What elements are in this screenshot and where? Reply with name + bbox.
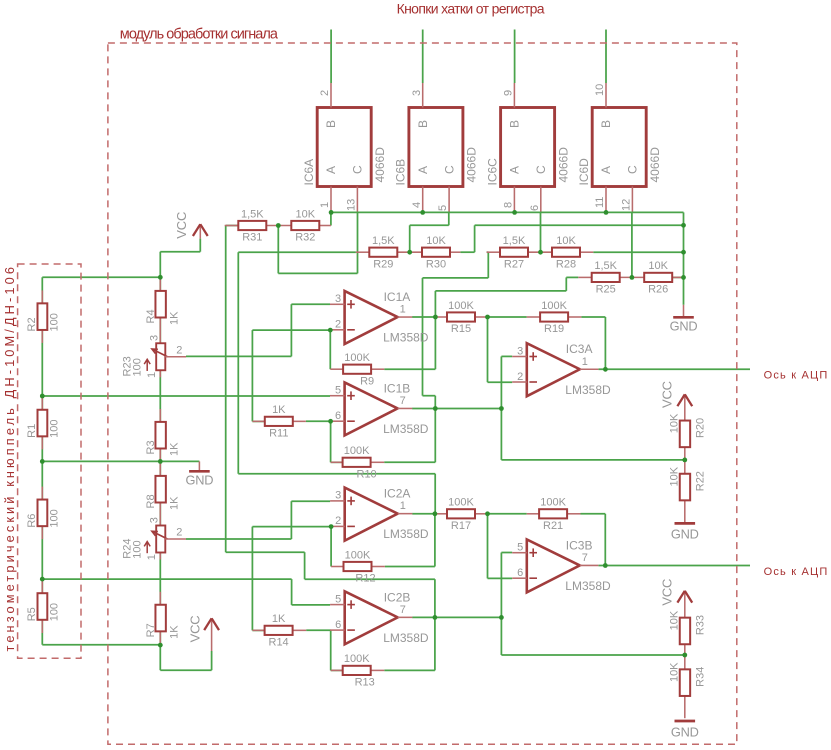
svg-text:R21: R21 — [543, 520, 563, 532]
svg-text:модуль обработки сигнала: модуль обработки сигнала — [120, 27, 279, 43]
svg-text:LM358D: LM358D — [383, 631, 429, 645]
svg-text:R33: R33 — [694, 615, 706, 635]
svg-text:100K: 100K — [448, 300, 474, 312]
svg-text:1,5K: 1,5K — [594, 260, 617, 272]
svg-text:GND: GND — [185, 473, 213, 488]
svg-text:1K: 1K — [168, 625, 180, 639]
svg-text:100K: 100K — [448, 497, 474, 509]
svg-text:GND: GND — [670, 319, 698, 334]
svg-text:6: 6 — [529, 205, 541, 211]
svg-text:7: 7 — [400, 395, 406, 407]
svg-text:VCC: VCC — [660, 579, 675, 606]
svg-text:10K: 10K — [669, 413, 681, 433]
svg-text:IC3B: IC3B — [566, 538, 593, 552]
svg-text:2: 2 — [319, 90, 331, 96]
svg-text:7: 7 — [400, 604, 406, 616]
svg-text:2: 2 — [176, 527, 182, 539]
svg-text:Ось к АЦП: Ось к АЦП — [764, 369, 829, 381]
svg-text:B: B — [416, 120, 430, 128]
svg-text:1K: 1K — [272, 404, 286, 416]
svg-text:R25: R25 — [596, 284, 616, 296]
svg-text:R15: R15 — [451, 323, 471, 335]
svg-text:A: A — [324, 166, 338, 174]
svg-text:IC3A: IC3A — [566, 342, 593, 356]
svg-text:A: A — [508, 166, 522, 174]
svg-text:1: 1 — [319, 202, 331, 208]
svg-text:IC6D: IC6D — [577, 158, 591, 186]
svg-text:Ось к АЦП: Ось к АЦП — [764, 566, 829, 578]
svg-text:1: 1 — [146, 372, 158, 378]
svg-text:5: 5 — [335, 593, 341, 605]
svg-text:R8: R8 — [145, 494, 157, 508]
svg-text:R30: R30 — [426, 258, 446, 270]
svg-text:6: 6 — [517, 567, 523, 579]
svg-text:4066D: 4066D — [373, 147, 387, 183]
svg-text:R28: R28 — [556, 258, 576, 270]
svg-text:7: 7 — [582, 552, 588, 564]
svg-text:IC6A: IC6A — [302, 159, 316, 186]
svg-text:IC1A: IC1A — [384, 290, 411, 304]
svg-text:R3: R3 — [145, 440, 157, 454]
svg-text:10K: 10K — [296, 208, 316, 220]
svg-text:1,5K: 1,5K — [503, 235, 526, 247]
svg-text:LM358D: LM358D — [565, 579, 611, 593]
svg-text:R1: R1 — [26, 424, 38, 438]
svg-text:R34: R34 — [694, 667, 706, 687]
svg-text:1: 1 — [146, 554, 158, 560]
svg-text:LM358D: LM358D — [383, 422, 429, 436]
svg-text:GND: GND — [671, 724, 699, 739]
svg-text:GND: GND — [671, 527, 699, 542]
svg-text:1K: 1K — [168, 311, 180, 325]
svg-text:LM358D: LM358D — [383, 331, 429, 345]
svg-text:4066D: 4066D — [556, 147, 570, 183]
svg-text:10K: 10K — [556, 235, 576, 247]
svg-text:1: 1 — [400, 500, 406, 512]
svg-text:3: 3 — [149, 517, 161, 523]
svg-text:R12: R12 — [355, 573, 375, 585]
svg-text:A: A — [599, 166, 613, 174]
svg-text:100K: 100K — [344, 653, 370, 665]
svg-text:1K: 1K — [168, 496, 180, 510]
svg-text:VCC: VCC — [174, 212, 189, 239]
svg-text:LM358D: LM358D — [565, 383, 611, 397]
svg-text:2: 2 — [335, 319, 341, 331]
svg-text:1,5K: 1,5K — [241, 208, 264, 220]
svg-text:10K: 10K — [648, 260, 668, 272]
svg-text:10K: 10K — [669, 466, 681, 486]
svg-text:3: 3 — [517, 345, 523, 357]
svg-text:R2: R2 — [26, 317, 38, 331]
svg-text:1,5K: 1,5K — [372, 235, 395, 247]
svg-text:12: 12 — [621, 199, 633, 211]
svg-text:6: 6 — [335, 410, 341, 422]
svg-text:100: 100 — [49, 419, 61, 437]
svg-text:100: 100 — [49, 313, 61, 331]
svg-text:100K: 100K — [345, 549, 371, 561]
svg-text:R27: R27 — [504, 258, 524, 270]
svg-text:IC6C: IC6C — [485, 158, 499, 186]
svg-text:Кнопки хатки от регистра: Кнопки хатки от регистра — [397, 1, 545, 17]
svg-text:2: 2 — [335, 515, 341, 527]
svg-text:R32: R32 — [295, 232, 315, 244]
svg-text:VCC: VCC — [187, 616, 202, 643]
svg-text:R17: R17 — [451, 520, 471, 532]
svg-text:9: 9 — [503, 90, 515, 96]
svg-text:R19: R19 — [544, 323, 564, 335]
svg-text:1: 1 — [582, 356, 588, 368]
svg-text:IC2B: IC2B — [384, 590, 411, 604]
svg-text:B: B — [324, 120, 338, 128]
svg-text:IC6B: IC6B — [394, 159, 408, 186]
svg-text:R22: R22 — [694, 471, 706, 491]
svg-text:4: 4 — [411, 202, 423, 208]
svg-text:4066D: 4066D — [465, 147, 479, 183]
svg-text:10K: 10K — [669, 610, 681, 630]
svg-text:100K: 100K — [344, 445, 370, 457]
svg-text:11: 11 — [594, 197, 606, 208]
svg-text:100: 100 — [132, 358, 144, 376]
svg-text:3: 3 — [411, 90, 423, 96]
svg-text:10K: 10K — [669, 662, 681, 682]
svg-text:5: 5 — [517, 542, 523, 554]
svg-text:C: C — [442, 165, 456, 174]
svg-text:100K: 100K — [540, 497, 566, 509]
svg-text:10: 10 — [594, 84, 606, 96]
svg-text:4066D: 4066D — [648, 147, 662, 183]
svg-text:R31: R31 — [242, 232, 262, 244]
svg-text:VCC: VCC — [660, 381, 675, 408]
svg-text:R29: R29 — [373, 258, 393, 270]
svg-text:6: 6 — [335, 619, 341, 631]
svg-text:A: A — [416, 166, 430, 174]
svg-text:3: 3 — [335, 293, 341, 305]
svg-text:R9: R9 — [360, 375, 374, 387]
svg-text:10K: 10K — [426, 235, 446, 247]
svg-text:C: C — [534, 165, 548, 174]
svg-text:1K: 1K — [168, 442, 180, 456]
svg-text:R26: R26 — [648, 284, 668, 296]
svg-text:LM358D: LM358D — [383, 527, 429, 541]
svg-text:100K: 100K — [541, 300, 567, 312]
svg-text:C: C — [626, 165, 640, 174]
svg-text:100: 100 — [132, 540, 144, 558]
svg-text:R13: R13 — [355, 677, 375, 689]
svg-text:IC2A: IC2A — [384, 487, 411, 501]
svg-text:5: 5 — [335, 385, 341, 397]
svg-text:R11: R11 — [269, 428, 288, 440]
svg-text:8: 8 — [503, 202, 515, 208]
svg-text:3: 3 — [335, 490, 341, 502]
svg-text:B: B — [599, 120, 613, 128]
svg-text:IC1B: IC1B — [384, 381, 411, 395]
svg-text:R5: R5 — [26, 607, 38, 621]
svg-text:R4: R4 — [145, 309, 157, 323]
svg-text:13: 13 — [346, 199, 358, 211]
svg-text:B: B — [508, 120, 522, 128]
svg-text:100: 100 — [49, 509, 61, 527]
svg-text:тензометрический кнюппель ДН-1: тензометрический кнюппель ДН-10М/ДН-106 — [2, 264, 17, 652]
svg-text:100K: 100K — [344, 352, 370, 364]
svg-text:1: 1 — [400, 304, 406, 316]
svg-text:R6: R6 — [26, 514, 38, 528]
svg-text:2: 2 — [517, 371, 523, 383]
svg-text:3: 3 — [149, 335, 161, 341]
svg-text:R10: R10 — [357, 469, 377, 481]
svg-text:1K: 1K — [272, 613, 286, 625]
svg-text:C: C — [351, 165, 365, 174]
svg-text:100: 100 — [49, 603, 61, 621]
svg-text:R20: R20 — [694, 418, 706, 438]
svg-text:5: 5 — [437, 205, 449, 211]
svg-text:R14: R14 — [269, 637, 289, 649]
svg-text:R7: R7 — [145, 623, 157, 637]
svg-text:2: 2 — [176, 344, 182, 356]
